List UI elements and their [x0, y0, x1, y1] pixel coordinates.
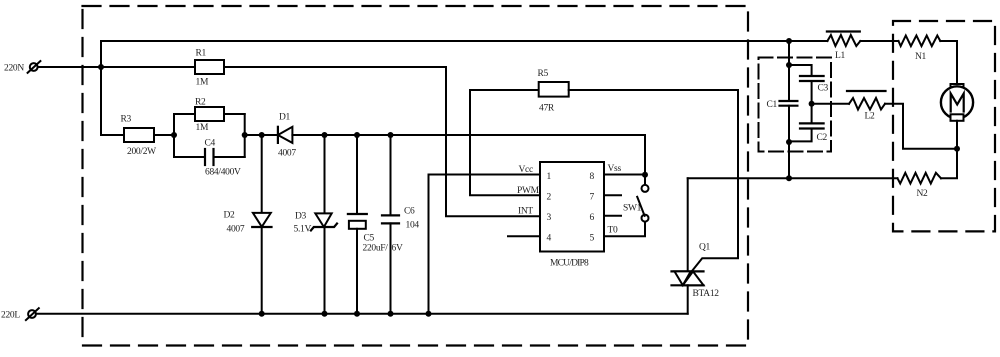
wire: pin 6 stub	[604, 215, 621, 217]
svg-text:6V: 6V	[392, 244, 403, 254]
svg-text:C6: C6	[404, 207, 415, 217]
svg-text:C5: C5	[364, 234, 375, 244]
svg-text:4007: 4007	[278, 149, 296, 159]
svg-text:1: 1	[547, 172, 552, 182]
svg-text:C2: C2	[817, 133, 828, 143]
wire: L2 to motor bottom junction	[885, 104, 957, 149]
winding N2	[898, 173, 942, 199]
svg-text:47R: 47R	[539, 104, 555, 114]
wire: C3 to C2 mid branch	[811, 81, 813, 123]
svg-text:N2: N2	[917, 189, 929, 199]
svg-text:5.1V: 5.1V	[294, 225, 312, 235]
node: D3 tap	[322, 132, 328, 138]
outer dashed control-board boundary	[83, 6, 749, 346]
wire: N1 to motor top	[940, 41, 957, 84]
wire: Vcc net to bottom rail	[429, 175, 541, 314]
zener diode D3	[294, 135, 338, 314]
wire: R3 to parallel block	[154, 134, 174, 136]
svg-text:L1: L1	[835, 51, 846, 61]
svg-text:N1: N1	[915, 52, 927, 62]
node: Vcc net bottom junction	[426, 311, 432, 317]
wire: parallel block left vertical	[173, 114, 175, 157]
capacitor C1	[767, 100, 798, 110]
svg-text:R3: R3	[121, 115, 132, 125]
capacitor C3	[800, 76, 829, 94]
node: filter bottom junction	[786, 175, 792, 181]
inductor L2	[847, 91, 886, 122]
svg-text:C4: C4	[205, 139, 216, 149]
diode D2	[224, 135, 272, 314]
svg-text:1M: 1M	[196, 78, 209, 88]
wire: triac bottom to 220L rail	[687, 285, 689, 313]
svg-text:200/2W: 200/2W	[127, 147, 156, 157]
wire: return line to triac top	[687, 178, 689, 271]
svg-text:8: 8	[590, 172, 595, 182]
svg-text:Vcc: Vcc	[519, 165, 533, 175]
svg-text:684/400V: 684/400V	[205, 168, 241, 178]
node: R2C4 right junction	[242, 132, 248, 138]
wire: R5 left leg to PWM pin	[470, 90, 540, 195]
triac Q1	[672, 243, 720, 300]
wire: trunk to R3	[101, 134, 124, 136]
svg-text:3: 3	[547, 213, 552, 223]
wire: R2 top branch leads	[174, 113, 245, 115]
node: D2 bottom junction	[259, 311, 265, 317]
EMI filter dashed box	[759, 58, 832, 152]
svg-text:L2: L2	[865, 112, 876, 122]
node: C6 bottom junction	[388, 311, 394, 317]
wire: filter junction to L1	[789, 40, 827, 42]
node: C5 bottom junction	[354, 311, 360, 317]
resistor R5	[538, 69, 569, 114]
wire: C4 bottom branch leads	[174, 156, 245, 158]
resistor R3	[121, 115, 157, 158]
wire: rail to D1	[245, 134, 278, 136]
svg-text:5: 5	[590, 234, 595, 244]
svg-text:2: 2	[547, 193, 552, 203]
switch SW1	[623, 185, 649, 222]
motor unit dashed box	[893, 21, 995, 231]
wire: parallel block right vertical	[244, 114, 246, 157]
svg-text:1M: 1M	[196, 123, 209, 133]
svg-text:C3: C3	[818, 84, 829, 94]
node: L2 tap	[809, 101, 815, 107]
svg-text:R2: R2	[195, 98, 206, 108]
wire: R5 right leg to triac gate	[569, 90, 738, 271]
svg-text:MCU/DIP8: MCU/DIP8	[550, 259, 589, 269]
node: R2C4 left junction	[171, 132, 177, 138]
svg-text:PWM: PWM	[517, 186, 540, 196]
diode D1	[278, 113, 296, 159]
svg-text:4: 4	[547, 234, 552, 244]
svg-text:C1: C1	[767, 100, 778, 110]
svg-text:Q1: Q1	[699, 243, 711, 253]
svg-text:220L: 220L	[1, 311, 20, 321]
wire: pin 4 stub	[508, 235, 540, 237]
winding N1	[899, 36, 941, 63]
wire: L1 to N1	[860, 40, 898, 42]
terminal 220L	[26, 308, 39, 320]
svg-text:BTA12: BTA12	[693, 289, 720, 299]
capacitor C5 electrolytic	[348, 135, 403, 314]
wire: pin 7 stub	[604, 194, 621, 196]
node: L2 motor junction	[954, 146, 960, 152]
capacitor C6	[382, 135, 419, 314]
wire: motor bottom to N2	[941, 121, 957, 179]
svg-text:INT: INT	[518, 207, 533, 217]
resistor R1	[195, 49, 224, 88]
svg-text:D1: D1	[279, 113, 291, 123]
op-amp U1 MCU/DIP8	[517, 162, 621, 269]
svg-text:R1: R1	[196, 49, 207, 59]
svg-text:7: 7	[590, 193, 595, 203]
node: Vss switch junction	[642, 172, 648, 178]
svg-text:220N: 220N	[4, 64, 24, 74]
svg-text:Vss: Vss	[608, 164, 622, 174]
svg-text:220uF/: 220uF/	[363, 244, 389, 254]
wire: Vss rail to switch	[292, 135, 645, 185]
svg-text:104: 104	[406, 221, 420, 231]
node: C6 tap	[388, 132, 394, 138]
wire: C3/C2 branch top	[789, 65, 812, 76]
wire: top rail y=41	[101, 40, 789, 42]
inductor L1	[827, 32, 860, 62]
capacitor C2	[800, 123, 828, 143]
wire: R1 to MCU INT pin	[224, 67, 540, 216]
wire: T0 pin 5 to switch	[604, 221, 645, 236]
svg-text:6: 6	[590, 213, 595, 223]
wire: C2 bottom connect	[789, 129, 812, 142]
resistor R2	[195, 98, 224, 134]
node A junction dot (220N)	[98, 64, 104, 70]
wire: return rail to N2	[688, 177, 898, 179]
motor M	[941, 84, 973, 121]
wire: node A vertical trunk	[100, 41, 102, 135]
svg-text:SW1: SW1	[623, 204, 642, 214]
node: top rail to filter junction	[786, 38, 792, 44]
svg-text:4007: 4007	[227, 225, 245, 235]
svg-text:D2: D2	[224, 211, 236, 221]
capacitor C4	[205, 139, 242, 178]
node: C5 tap	[354, 132, 360, 138]
wire: filter trunk vertical	[788, 41, 790, 178]
wire: Vss pin 8 to switch node	[604, 174, 645, 176]
wire: filter mid to L2	[812, 103, 849, 105]
svg-text:D3: D3	[295, 212, 307, 222]
node: C3 branch tap	[786, 62, 792, 68]
wire: 220N terminal to R1	[38, 66, 195, 68]
node: D3 bottom junction	[322, 311, 328, 317]
svg-text:R5: R5	[538, 69, 549, 79]
node: C2 branch tap	[786, 139, 792, 145]
terminal 220N	[28, 61, 41, 73]
node: D2 tap	[259, 132, 265, 138]
svg-text:T0: T0	[608, 226, 619, 236]
wire: bottom rail 220L	[36, 313, 688, 315]
